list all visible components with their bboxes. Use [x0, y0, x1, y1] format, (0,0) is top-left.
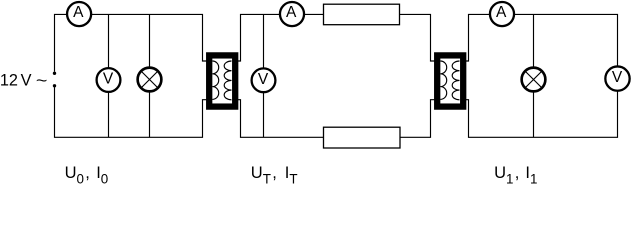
ammeter A (middle, IT) [280, 2, 304, 26]
svg-text:V: V [21, 72, 32, 90]
svg-text:V: V [258, 71, 269, 88]
transformer T1 secondary coil [224, 61, 231, 100]
svg-text:A: A [286, 4, 297, 21]
voltmeter V (left, U0) [97, 68, 121, 92]
label UT, IT [251, 164, 298, 186]
transformer T1 core [209, 55, 235, 106]
lamp (right block) [522, 68, 546, 92]
source terminal lower dot [53, 84, 56, 87]
ammeter A (left, I0) [67, 2, 91, 26]
svg-text:~: ~ [36, 72, 48, 90]
voltmeter V (middle, UT) [252, 68, 276, 92]
resistor R top [324, 4, 400, 25]
wire right-loop: T2 secondary top, right rail, bottom [462, 14, 618, 137]
transformer T2 primary coil [440, 61, 446, 99]
transformer T2 core [437, 55, 463, 106]
source terminal upper dot [53, 72, 56, 75]
ammeter A (right, I1) [490, 2, 514, 26]
label U0, I0 [65, 164, 109, 186]
svg-text:A: A [73, 4, 84, 21]
wire voltmeter VT branch [263, 14, 265, 137]
transformer T1 primary coil [212, 61, 218, 99]
wire lamp L1 branch [533, 14, 535, 137]
lamp (left block) [138, 68, 162, 92]
wire lamp L0 branch [149, 14, 151, 137]
transformer T2 secondary coil [452, 61, 459, 100]
svg-text:V: V [103, 71, 114, 88]
wire middle-loop bottom: T1 secondary bottom to T2 primary bottom [234, 100, 437, 138]
svg-text:12: 12 [0, 72, 18, 90]
wire left-loop top: source to transformer T1 primary top [55, 14, 210, 71]
resistor R bottom [324, 127, 401, 148]
label U1, I1 [494, 164, 537, 186]
svg-text:A: A [496, 4, 507, 21]
wire voltmeter V0 branch [108, 14, 110, 137]
voltmeter V (right, U1) [605, 66, 629, 90]
wire middle-loop top: T1 secondary top to T2 primary top [234, 14, 437, 61]
wire left-loop bottom: source to T1 primary bottom [55, 87, 210, 137]
svg-text:V: V [612, 69, 623, 86]
